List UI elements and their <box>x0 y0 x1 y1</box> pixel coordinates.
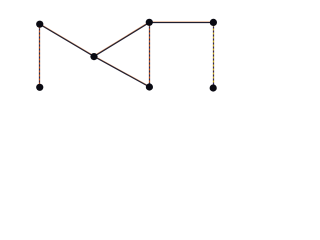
wire M-B2 (solid edge, warm AA fringe) <box>94 56 150 87</box>
node B3 <box>210 84 217 91</box>
node B2 <box>146 83 153 90</box>
wire M-T2 (solid edge) <box>94 23 150 57</box>
node B1 <box>36 84 43 91</box>
wire T2-B2 (dashed edge, orange part) <box>149 23 151 88</box>
wire T1-B1 (dashed edge, orange part) <box>39 25 41 88</box>
wire T2-B2 (dashed edge, dark part) <box>149 23 151 88</box>
wire T1-B1 (dashed edge, dark part) <box>39 25 41 88</box>
wire T2-T3 (solid edge) <box>150 22 214 24</box>
node T1 <box>36 21 43 28</box>
node T3 <box>210 19 217 26</box>
node T2 <box>146 19 153 26</box>
wire T1-M (solid edge) <box>40 25 94 57</box>
wire T2-T3 (solid edge, warm AA fringe) <box>150 21 214 23</box>
wire T3-B3 (dashed edge, dark part) <box>213 23 215 89</box>
wire M-B2 (solid edge) <box>94 57 150 88</box>
wire T1-M (solid edge, warm AA fringe) <box>40 24 94 56</box>
wire T3-B3 (dashed edge, yellow part) <box>213 23 215 89</box>
node M <box>90 53 97 60</box>
wire M-T2 (solid edge, warm AA fringe) <box>94 22 150 56</box>
